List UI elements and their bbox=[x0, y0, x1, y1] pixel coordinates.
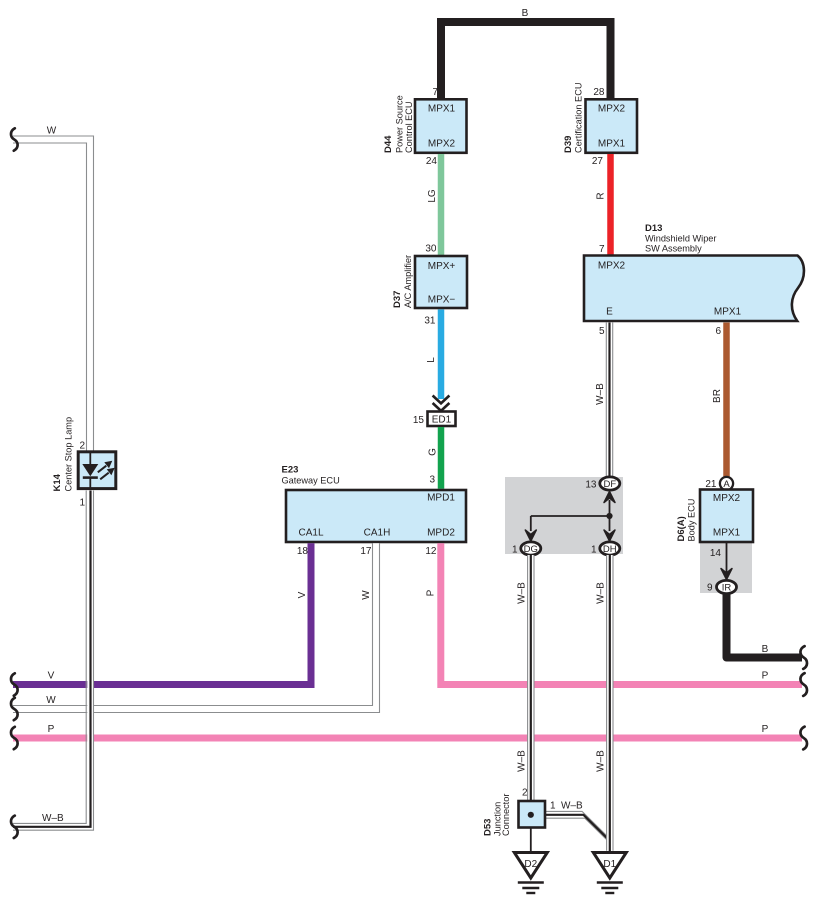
svg-text:E: E bbox=[606, 307, 613, 318]
svg-text:D44: D44 bbox=[383, 135, 394, 153]
junction dot D53 bbox=[528, 812, 534, 818]
svg-text:DH: DH bbox=[603, 544, 617, 555]
arrow into IR bbox=[721, 569, 732, 580]
svg-text:MPX2: MPX2 bbox=[598, 104, 626, 115]
svg-text:P: P bbox=[426, 589, 437, 596]
svg-text:Control ECU: Control ECU bbox=[404, 101, 414, 153]
svg-text:1: 1 bbox=[512, 545, 518, 556]
svg-text:MPX1: MPX1 bbox=[428, 104, 456, 115]
wire W from CA1H bbox=[13, 543, 380, 712]
svg-text:A/C Amplifier: A/C Amplifier bbox=[403, 255, 413, 308]
break symbol P1 right bbox=[800, 673, 807, 696]
svg-text:14: 14 bbox=[710, 548, 722, 559]
svg-text:W–B: W–B bbox=[595, 383, 606, 405]
svg-text:MPX2: MPX2 bbox=[598, 261, 626, 272]
wire DF junction vertical bbox=[609, 500, 611, 531]
LED emission arrow 1 bbox=[98, 466, 107, 473]
svg-text:R: R bbox=[596, 192, 607, 199]
svg-text:6: 6 bbox=[715, 326, 721, 337]
svg-text:1: 1 bbox=[591, 545, 597, 556]
svg-text:15: 15 bbox=[413, 415, 425, 426]
svg-text:IR: IR bbox=[722, 583, 732, 594]
svg-text:Power Source: Power Source bbox=[395, 95, 405, 153]
svg-text:Connector: Connector bbox=[501, 794, 511, 836]
svg-text:LG: LG bbox=[427, 189, 438, 203]
svg-text:5: 5 bbox=[599, 326, 605, 337]
wire junction horizontal bbox=[531, 515, 610, 517]
svg-text:28: 28 bbox=[593, 87, 605, 98]
svg-text:2: 2 bbox=[522, 788, 528, 799]
svg-text:P: P bbox=[48, 724, 55, 735]
svg-text:L: L bbox=[426, 357, 437, 363]
LED cathode wire bbox=[89, 478, 91, 490]
node DG bbox=[521, 542, 541, 555]
svg-text:Body ECU: Body ECU bbox=[687, 499, 697, 542]
break symbol P2 left bbox=[11, 727, 18, 749]
svg-text:G: G bbox=[428, 448, 439, 456]
svg-text:MPX1: MPX1 bbox=[713, 528, 741, 539]
LED anode wire bbox=[89, 452, 91, 465]
svg-text:ED1: ED1 bbox=[432, 415, 452, 426]
body ECU D6(A) bbox=[700, 490, 753, 543]
node IR bbox=[717, 580, 737, 593]
svg-text:DG: DG bbox=[524, 544, 538, 555]
wire B top bus bbox=[441, 22, 611, 100]
svg-text:MPX+: MPX+ bbox=[428, 261, 456, 272]
svg-text:7: 7 bbox=[432, 87, 438, 98]
svg-text:SW Assembly: SW Assembly bbox=[645, 244, 702, 254]
svg-text:CA1H: CA1H bbox=[364, 528, 391, 539]
svg-text:31: 31 bbox=[424, 316, 436, 327]
wire MPX1 to IR bbox=[726, 542, 728, 581]
svg-text:30: 30 bbox=[425, 244, 437, 255]
svg-text:MPX1: MPX1 bbox=[598, 139, 626, 150]
wire W-B from K14 pin1 bbox=[13, 491, 94, 831]
amplifier D37 bbox=[415, 256, 467, 308]
svg-text:V: V bbox=[48, 671, 55, 682]
svg-text:MPD2: MPD2 bbox=[427, 528, 455, 539]
svg-text:MPX1: MPX1 bbox=[714, 307, 742, 318]
svg-text:W–B: W–B bbox=[517, 750, 528, 772]
ECU D44 bbox=[415, 99, 467, 153]
wire W-B from E to DF bbox=[606, 323, 612, 479]
svg-text:W: W bbox=[46, 695, 56, 706]
wire V from CA1L bbox=[13, 543, 311, 684]
svg-text:2: 2 bbox=[79, 441, 85, 452]
svg-text:DF: DF bbox=[603, 479, 616, 490]
svg-text:V: V bbox=[297, 591, 308, 598]
break symbol P2 right bbox=[800, 727, 807, 750]
wire L bbox=[438, 310, 445, 400]
svg-text:1: 1 bbox=[550, 801, 556, 812]
svg-text:17: 17 bbox=[360, 546, 372, 557]
svg-text:D37: D37 bbox=[392, 291, 403, 308]
svg-text:27: 27 bbox=[592, 156, 604, 167]
wire W from K14 pin2 bbox=[13, 136, 94, 451]
break symbol B right bbox=[800, 646, 807, 669]
ground D1 bbox=[593, 853, 626, 894]
wire W-B from DH to D1 bbox=[607, 555, 613, 852]
svg-text:MPD1: MPD1 bbox=[427, 493, 455, 504]
svg-text:MPX2: MPX2 bbox=[428, 139, 456, 150]
break symbol V left bbox=[11, 673, 18, 695]
svg-text:K14: K14 bbox=[52, 473, 63, 491]
svg-text:P: P bbox=[762, 724, 769, 735]
arrow into DG bbox=[525, 530, 536, 541]
svg-text:12: 12 bbox=[425, 546, 437, 557]
svg-text:D1: D1 bbox=[603, 859, 616, 870]
svg-text:CA1L: CA1L bbox=[298, 528, 323, 539]
wire D53 to D2 bbox=[530, 828, 532, 853]
LED triangle bbox=[82, 464, 98, 476]
LED emission arrow 2 bbox=[100, 473, 109, 480]
svg-text:Center Stop Lamp: Center Stop Lamp bbox=[64, 417, 74, 492]
break symbol W left bbox=[11, 698, 18, 720]
stop lamp K14 bbox=[78, 452, 116, 489]
wire BR bbox=[723, 323, 730, 478]
wire P from MPD2 bbox=[441, 543, 802, 684]
svg-text:24: 24 bbox=[426, 156, 438, 167]
node DH bbox=[600, 542, 620, 555]
svg-text:B: B bbox=[522, 8, 529, 19]
wire W-B link D53 to D1 bbox=[531, 811, 610, 842]
junction dot bbox=[606, 513, 612, 519]
svg-text:1: 1 bbox=[79, 498, 85, 509]
arrow into DH bbox=[604, 530, 615, 541]
svg-text:MPX2: MPX2 bbox=[713, 493, 741, 504]
svg-text:Certification ECU: Certification ECU bbox=[574, 83, 584, 153]
svg-text:D2: D2 bbox=[524, 859, 537, 870]
wire stub to DG arrow bbox=[530, 516, 532, 531]
node DF bbox=[600, 477, 620, 490]
ground D2 bbox=[514, 853, 547, 894]
svg-text:BR: BR bbox=[712, 389, 723, 403]
LED cathode bar bbox=[83, 476, 98, 479]
shield zone DF/DG/DH bbox=[505, 477, 623, 554]
svg-text:W: W bbox=[361, 590, 372, 600]
svg-text:E23: E23 bbox=[282, 465, 299, 476]
svg-text:W: W bbox=[47, 126, 57, 137]
wire P run lower bbox=[13, 735, 802, 742]
gateway ECU E23 bbox=[286, 490, 466, 542]
shield chevrons above ED1 bbox=[433, 396, 450, 404]
svg-text:W–B: W–B bbox=[517, 582, 528, 604]
svg-text:7: 7 bbox=[599, 244, 605, 255]
svg-text:B: B bbox=[762, 644, 769, 655]
svg-text:Windshield Wiper: Windshield Wiper bbox=[645, 234, 716, 244]
wire R bbox=[607, 154, 614, 255]
wire LG bbox=[438, 154, 445, 255]
svg-text:P: P bbox=[762, 671, 769, 682]
svg-text:Gateway ECU: Gateway ECU bbox=[282, 476, 340, 486]
svg-text:MPX−: MPX− bbox=[428, 295, 456, 306]
connector ED1 bbox=[428, 412, 456, 427]
svg-text:D13: D13 bbox=[645, 223, 662, 234]
svg-text:13: 13 bbox=[585, 480, 597, 491]
svg-text:18: 18 bbox=[297, 546, 309, 557]
arrow into DF bbox=[604, 492, 615, 503]
shield zone IR bbox=[700, 543, 752, 593]
svg-text:9: 9 bbox=[707, 583, 713, 594]
svg-text:3: 3 bbox=[429, 475, 435, 486]
svg-text:W–B: W–B bbox=[42, 813, 64, 824]
svg-text:W–B: W–B bbox=[596, 750, 607, 772]
wire W-B from DG to D53 bbox=[528, 555, 534, 812]
break symbol W top left bbox=[11, 128, 18, 150]
wire B bottom bbox=[727, 594, 803, 658]
svg-text:W–B: W–B bbox=[561, 801, 583, 812]
svg-text:W–B: W–B bbox=[596, 582, 607, 604]
break symbol W-B left bbox=[11, 816, 18, 838]
svg-text:D6(A): D6(A) bbox=[676, 516, 687, 541]
svg-text:D39: D39 bbox=[563, 136, 574, 153]
node A bbox=[720, 477, 733, 490]
wire G bbox=[438, 427, 445, 489]
junction connector D53 bbox=[519, 801, 546, 828]
switch D13 bbox=[584, 256, 804, 322]
ECU D39 bbox=[586, 99, 638, 153]
